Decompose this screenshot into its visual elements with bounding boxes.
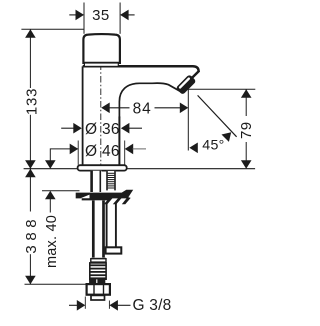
bottom stub [91,295,105,300]
dim 35: left arrow [76,10,85,21]
body left wall [82,66,84,166]
dim 388: bottom extension line [25,283,87,285]
wire: mounting plane line [24,168,256,170]
dim max.40: bottom arrow [45,191,56,200]
dim max.40: reference line at nut [42,190,80,192]
ribbed connector [90,263,106,279]
dim 388: dimension line [29,169,31,212]
svg-text:G 3/8: G 3/8 [133,297,172,314]
dim 79: dimension line [245,89,247,116]
dim G3/8: right arrow [109,300,118,311]
dim 45deg: left arrow [189,143,198,154]
dim dia46: right arrow [125,144,134,155]
dim 133: top extension line [21,28,84,30]
dim 35: right arrow [120,10,129,21]
compression nut band [89,279,105,283]
dim 388: top arrow [25,169,36,178]
dim max.40: leader from dia46 arrow [50,149,78,161]
dim 133: bottom arrow [25,160,36,169]
dim G3/8: right extension line [108,301,110,309]
dim max.40: top arrow [45,160,56,169]
threaded rod below nut [106,202,108,248]
knob handle [83,34,120,63]
svg-text:35: 35 [92,7,110,24]
svg-text:84: 84 [133,100,152,117]
dim 45deg: arrow on diagonal [222,132,232,142]
dim 388: bottom arrow [25,276,36,285]
svg-text:Ø 46: Ø 46 [85,143,120,160]
base plate [78,165,127,170]
spout top edge [83,66,199,89]
rod foot [106,247,122,253]
svg-text:max. 40: max. 40 [44,215,60,268]
dim 35: left extension line [83,3,85,34]
dim dia36: right arrow [121,123,129,134]
dim dia36: left arrow [61,127,74,129]
faucet body and spout outline [83,66,199,166]
supply pipe above nut [90,171,101,191]
dim G3/8: left extension line [84,297,86,309]
supply pipe below nut [92,200,105,257]
mounting nut [76,190,134,205]
spout underside curve [119,83,180,117]
aerator block [176,74,197,95]
dim dia46: left extension line [77,141,79,165]
dim 79: top arrow [241,89,252,98]
dim 133: dimension line [29,29,31,88]
svg-text:388: 388 [23,215,40,254]
dim 35: right extension line [119,3,121,34]
dim dia46: right extension line [124,141,126,165]
centerline of body [100,64,102,168]
svg-text:45°: 45° [202,138,224,154]
knob base ring [84,63,118,66]
dim 84: right arrow [155,107,181,109]
dim 45deg: vertical extension line from aerator [187,89,189,150]
svg-text:Ø 36: Ø 36 [85,121,120,138]
dim 79: top extension line [188,88,255,90]
dim 45deg: diagonal reference line [198,95,237,136]
nut right diagonal struts [104,197,114,204]
dim 133: top arrow [25,29,36,38]
dim 79: bottom arrow [241,160,252,169]
threaded shank [106,171,116,191]
pipe joint collar [91,258,106,260]
svg-text:133: 133 [23,88,40,115]
dim dia46: left arrow [70,144,79,155]
dim G3/8: left arrow [69,304,79,306]
hex nut G3/8 [87,284,110,295]
dim 84: left arrow (at centerline) [101,103,110,114]
body right wall [118,117,120,167]
svg-text:79: 79 [238,121,255,139]
